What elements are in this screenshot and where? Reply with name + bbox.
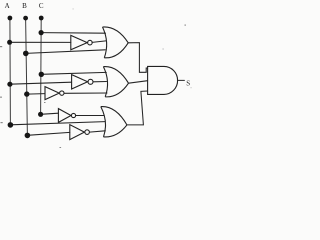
node A junction row1 bbox=[7, 40, 12, 45]
wire I2 output to OR2 middle input bbox=[93, 81, 106, 83]
or-gate U3 bbox=[101, 107, 127, 137]
node C top terminal bbox=[39, 16, 44, 21]
and-gate U4 bbox=[148, 66, 178, 94]
wire A input rail bbox=[9, 18, 12, 125]
node C junction row2 bbox=[39, 72, 44, 77]
wire C to inverter I4 input bbox=[41, 113, 59, 114]
wire B to inverter I5 input bbox=[27, 132, 69, 135]
svg-text:B: B bbox=[22, 2, 27, 10]
node C junction row1 bbox=[39, 30, 44, 35]
wire B to OR1 bottom input bbox=[26, 50, 106, 54]
wire C to OR1 top input bbox=[41, 32, 105, 35]
inverter I4 bbox=[58, 109, 75, 123]
node A top terminal bbox=[7, 16, 12, 21]
svg-text:S: S bbox=[186, 79, 190, 87]
or-gate U2 bbox=[103, 67, 128, 97]
wire I5 output to OR3 bottom input bbox=[90, 131, 106, 132]
wire I3 output to OR2 bottom input bbox=[64, 92, 107, 94]
node B junction row3 bbox=[25, 133, 31, 139]
node B top terminal bbox=[23, 16, 28, 21]
wire AND output to S bbox=[177, 79, 184, 81]
svg-text:A: A bbox=[5, 2, 10, 10]
wire C to OR2 top input bbox=[41, 72, 106, 74]
wire I4 output to OR3 top input bbox=[76, 115, 105, 117]
inverter I2 bbox=[72, 75, 93, 89]
node A junction row3 bbox=[8, 122, 14, 128]
inverter I3 bbox=[45, 87, 64, 100]
wire A to OR3 middle input bbox=[10, 122, 104, 125]
wire B input rail bbox=[26, 18, 28, 135]
svg-text:C: C bbox=[39, 2, 44, 10]
inverter I1 bbox=[71, 35, 92, 49]
or-gate U1 bbox=[103, 27, 129, 58]
node B junction row1 bbox=[23, 51, 29, 57]
wire OR2 output to AND middle input bbox=[129, 81, 148, 84]
node A junction row2 bbox=[7, 82, 12, 87]
wire A to inverter I2 input bbox=[10, 82, 72, 84]
scan speck marks bbox=[0, 9, 192, 149]
wire A to inverter I1 input bbox=[10, 41, 71, 43]
wire OR1 output to AND top input bbox=[128, 43, 147, 73]
inverter I5 bbox=[70, 125, 90, 140]
wire B to inverter I3 input bbox=[27, 93, 45, 96]
wire OR3 output to AND bottom input bbox=[127, 91, 148, 125]
node B junction row2 bbox=[24, 91, 29, 96]
wire I1 output to OR1 middle input bbox=[92, 41, 106, 43]
wire C input rail bbox=[40, 18, 43, 114]
node C junction row3 bbox=[38, 112, 43, 117]
